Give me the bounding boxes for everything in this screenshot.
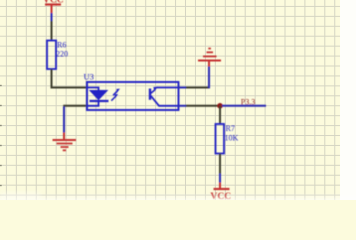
pin stub U3 pin4 (emitter) [178,87,187,89]
junction node [217,103,223,109]
ground (earth, top-right, inverted) [198,49,221,67]
svg-text:R7: R7 [226,124,235,133]
power port VCC (top) [43,0,64,21]
optocoupler U3 body [84,72,179,111]
power port VCC (bottom) [210,183,231,203]
svg-text:220: 220 [56,50,68,59]
wire collector to junction [186,105,220,107]
wire junction to R7 [219,106,221,124]
svg-text:P3.3: P3.3 [241,98,255,107]
svg-text:U3: U3 [84,72,94,82]
svg-text:10K: 10K [225,134,239,143]
light arrows (inside U3) [111,89,120,101]
phototransistor (inside U3) [150,87,178,106]
wire opto pin2 to ground [63,105,87,107]
resistor R6 [47,41,68,70]
wire net P3.3 [222,105,266,107]
resistor R7 [216,124,239,154]
ground (earth, bottom-left) [53,133,77,151]
wire VCC to R6 [51,21,53,41]
wire emitter to ground (top-right) [186,87,210,89]
white fade at right edge [340,0,356,200]
LED (inside U3) [87,88,109,106]
wire R6 to opto pin1 [52,69,88,88]
svg-text:R6: R6 [57,41,66,50]
wire R7 to VCC (bottom) [219,154,221,175]
pin stub U3 pin3 (collector) [178,105,187,107]
